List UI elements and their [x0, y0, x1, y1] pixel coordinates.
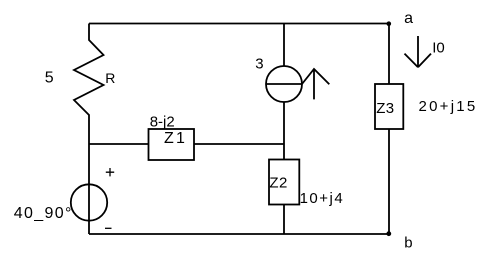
svg-text:Z3: Z3	[376, 100, 394, 117]
svg-text:5: 5	[45, 70, 54, 87]
svg-text:a: a	[404, 10, 413, 27]
svg-text:R: R	[105, 70, 115, 86]
svg-text:20+j15: 20+j15	[419, 98, 478, 115]
svg-text:Z2: Z2	[269, 175, 288, 192]
svg-text:I0: I0	[432, 39, 445, 56]
svg-text:3: 3	[255, 56, 263, 73]
svg-text:b: b	[404, 235, 412, 252]
svg-text:Z1: Z1	[164, 130, 187, 147]
svg-text:8-j2: 8-j2	[150, 114, 175, 131]
svg-text:10+j4: 10+j4	[300, 190, 345, 207]
svg-text:40_90°: 40_90°	[14, 205, 73, 222]
